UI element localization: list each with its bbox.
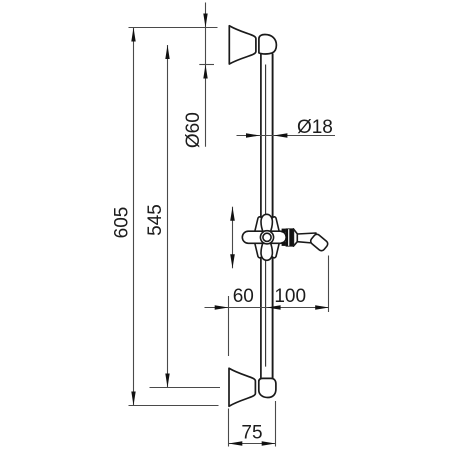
extension line 605 bottom — [129, 405, 219, 407]
rail tube inner highlight line — [265, 65, 267, 367]
extension line 75 right — [275, 401, 277, 447]
extension line 545 bottom — [150, 387, 221, 389]
label dia60 — [183, 112, 204, 148]
extension line holder end — [328, 256, 330, 313]
label 605 — [112, 207, 133, 239]
dimension lines — [129, 3, 336, 447]
dimension line 605 — [133, 28, 135, 406]
svg-text:60: 60 — [233, 286, 254, 307]
top bracket ball cap — [259, 35, 277, 55]
arrow dia60 top (outside) — [203, 14, 207, 28]
arrow 100 right — [315, 305, 329, 310]
arrow 60 left (outside) — [215, 305, 229, 310]
arrow 605 bottom — [131, 392, 135, 406]
svg-text:Ø18: Ø18 — [297, 117, 333, 138]
holder clamp jaw top — [282, 229, 286, 233]
knob rear petal lower-right — [267, 237, 279, 258]
extension tick dia60 bottom — [199, 64, 214, 66]
extension line 75 left — [228, 409, 230, 447]
arrow 545 top — [165, 45, 169, 59]
knob hub outer ring — [260, 231, 273, 244]
slider cross knob — [242, 214, 286, 260]
holder clamp black collar — [286, 228, 294, 246]
label 75 — [241, 423, 262, 444]
rail tube right edge — [272, 54, 274, 379]
knob horizontal petals — [242, 231, 286, 243]
svg-text:Ø60: Ø60 — [183, 112, 204, 148]
svg-text:75: 75 — [241, 423, 262, 444]
holder arm — [297, 233, 316, 243]
holder cup (angled) — [309, 233, 329, 252]
dimension labels — [112, 112, 333, 443]
arrow 75 right — [262, 441, 276, 446]
svg-text:545: 545 — [145, 204, 166, 236]
arrow dia60 bottom (outside) — [203, 65, 207, 79]
knob rear petal upper-left — [255, 217, 267, 238]
holder taper cone — [293, 229, 297, 246]
dimension line 75 — [229, 443, 276, 445]
svg-text:605: 605 — [112, 207, 133, 239]
arrow 100 left (at rail) — [267, 305, 281, 310]
arrow 75 left — [229, 441, 243, 446]
label 100 — [274, 286, 306, 307]
label 60 — [233, 286, 254, 307]
bottom wall bracket cone — [229, 368, 255, 406]
dimension line 60-100 — [205, 307, 330, 309]
dimension line 545 — [167, 45, 169, 388]
extension line wall plane — [228, 296, 230, 356]
knob rear petal upper-right — [267, 217, 279, 238]
extension line top (overall) — [129, 27, 218, 29]
arrow 545 bottom — [165, 374, 169, 388]
arrow 605 top — [131, 28, 135, 42]
holder clamp jaw bottom — [282, 242, 286, 246]
knob rear petal lower-left — [255, 237, 267, 258]
label dia18 — [297, 117, 333, 138]
svg-text:100: 100 — [274, 286, 306, 307]
arrow dia18 right — [274, 133, 288, 138]
bottom bracket ball cap — [259, 378, 276, 397]
rail tube left edge — [260, 54, 262, 379]
dimension line dia60 — [205, 3, 207, 147]
knob vertical front petals — [261, 214, 272, 260]
slide arrow head down — [230, 254, 235, 268]
arrowheads — [131, 14, 329, 446]
slide direction arrow shaft — [232, 207, 234, 269]
top wall bracket cone — [229, 26, 256, 64]
label 545 — [145, 204, 166, 236]
dimension line dia18 — [237, 135, 336, 137]
arrow dia18 left — [246, 133, 260, 138]
knob hub inner circle — [263, 233, 271, 241]
slide arrow head up — [230, 207, 235, 221]
